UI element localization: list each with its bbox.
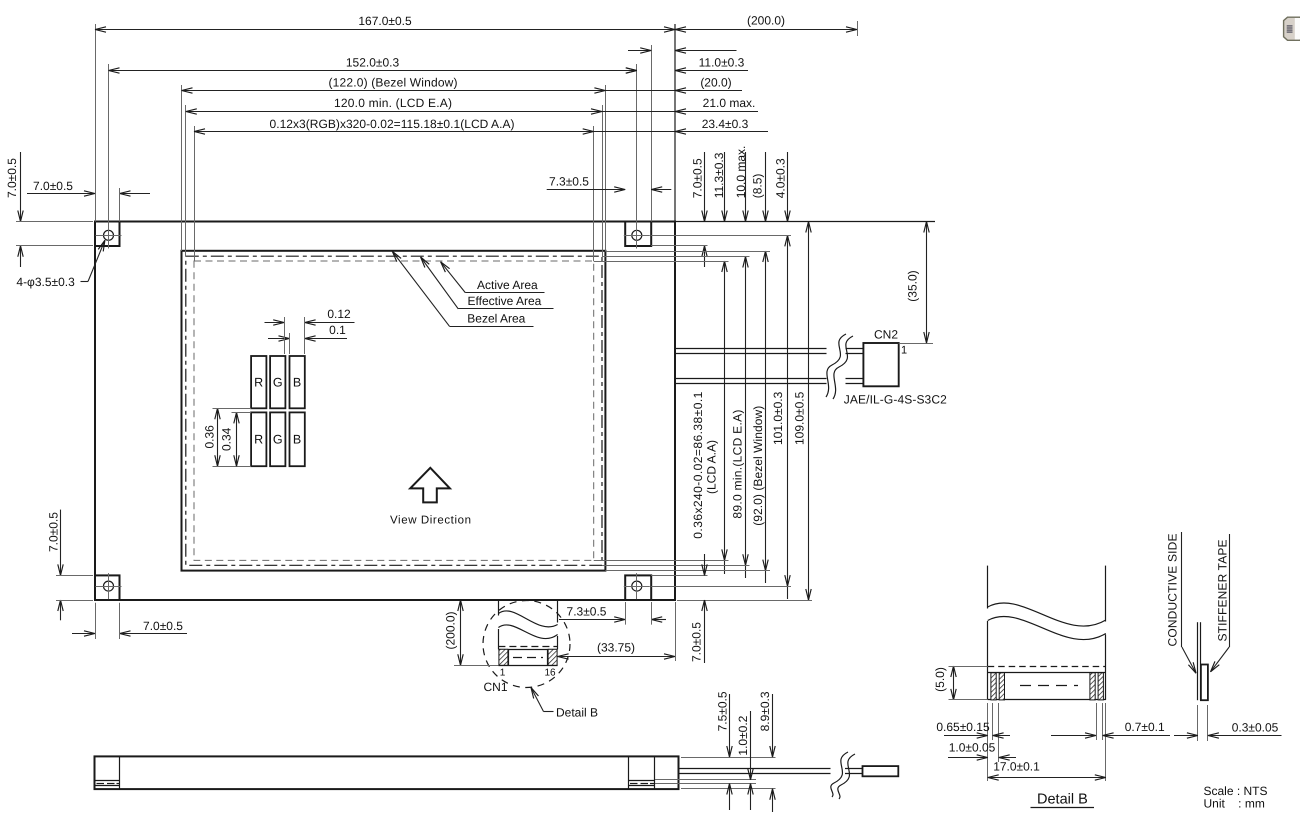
subpixel R row1	[251, 356, 266, 408]
detail B callout circle	[483, 601, 570, 688]
svg-text:(33.75): (33.75)	[597, 641, 635, 655]
connector CN2 body	[863, 343, 898, 386]
FPC CN1 right edge	[557, 600, 559, 649]
svg-text:Effective Area: Effective Area	[468, 294, 542, 308]
svg-text:STIFFENER TAPE: STIFFENER TAPE	[1216, 540, 1230, 642]
side view divider left	[119, 756, 121, 789]
FPC end side view	[1198, 622, 1201, 700]
label CN2	[874, 328, 898, 342]
ext pad TR bottom	[651, 245, 707, 247]
wire CN2 upper (two lines)	[675, 349, 863, 354]
subpixel B row1	[290, 356, 305, 408]
svg-text:1: 1	[500, 668, 506, 679]
dim 0.1 subpixel width	[268, 323, 347, 339]
svg-text:(LCD A.A): (LCD A.A)	[704, 440, 718, 494]
svg-text:(200.0): (200.0)	[444, 611, 458, 649]
ext line bezel right up	[605, 85, 607, 251]
dim 21.0 max right	[602, 96, 758, 111]
rotated label 92.0 bezel window	[751, 406, 765, 526]
dim 115.18 LCD AA width	[194, 117, 594, 132]
side view left lamp detail	[95, 781, 120, 786]
dim 120.0 LCD EA width	[186, 96, 602, 111]
dim 7.3 bottom-right pad	[559, 602, 666, 625]
svg-text:0.12x3(RGB)x320-0.02=115.18±0.: 0.12x3(RGB)x320-0.02=115.18±0.1(LCD A.A)	[270, 117, 515, 131]
ext line AA right up	[593, 126, 595, 261]
dim 7.0 vertical bottom-left (rotated label)	[47, 510, 93, 621]
ext EA top right	[602, 256, 750, 258]
label CN1	[483, 680, 507, 694]
mounting hole bottom-left	[96, 573, 122, 599]
side view divider right B	[654, 756, 656, 789]
svg-text:1: 1	[901, 345, 907, 357]
ext line hole center TL up	[108, 64, 110, 249]
mounting pad top-right	[625, 222, 651, 247]
dim 7.5 side view	[715, 691, 729, 810]
dim 7.0 vertical pad height top-left (rotated label)	[5, 152, 93, 267]
LCD module outline (main front view)	[95, 222, 675, 601]
svg-text:0.65±0.15: 0.65±0.15	[936, 720, 990, 734]
dim 7.0 horizontal pad width top-left	[27, 179, 150, 222]
ext stiffener part	[1198, 705, 1208, 741]
FPC CN1 wave break	[498, 611, 557, 639]
dim 23.4 right	[594, 117, 768, 132]
svg-text:JAE/IL-G-4S-S3C2: JAE/IL-G-4S-S3C2	[844, 392, 947, 406]
leader + label Detail B	[531, 688, 598, 720]
backlight wire upper line	[679, 768, 863, 770]
dim 17.0 detail B	[988, 760, 1106, 778]
svg-text:R: R	[254, 376, 263, 390]
subpixel B row2	[290, 412, 305, 466]
title Detail B	[1031, 792, 1095, 808]
dim 0.3 stiffener	[1174, 721, 1282, 736]
detail B FPC right edge	[1105, 566, 1107, 700]
dim 0.65 detail B	[936, 720, 1010, 735]
wire CN2 lower (two lines)	[675, 379, 863, 384]
svg-text:CN1: CN1	[483, 680, 507, 694]
dim 7.0 bottom-right pad (line x=704.3)	[689, 554, 704, 663]
label pin16 CN1	[544, 668, 556, 679]
ext CN2 top right	[899, 343, 933, 345]
svg-text:23.4±0.3: 23.4±0.3	[702, 117, 749, 131]
ext line hole center TR up	[636, 64, 638, 249]
wire break symbol (S-curve)	[826, 334, 853, 399]
svg-text:Detail B: Detail B	[1037, 792, 1088, 808]
dim 152.0 hole centers	[109, 56, 637, 71]
ext top edge to right	[675, 221, 935, 223]
FPC CN1 left edge	[498, 600, 500, 649]
dim 0.36 pixel pitch vertical	[203, 408, 252, 466]
svg-text:0.12: 0.12	[327, 307, 351, 321]
svg-text:0.36: 0.36	[203, 425, 217, 449]
svg-text:10.0 max.: 10.0 max.	[734, 146, 748, 199]
svg-text:101.0±0.3: 101.0±0.3	[771, 391, 785, 445]
ext outline bottom right	[677, 600, 812, 602]
mounting hole bottom-right	[624, 573, 650, 599]
svg-text:B: B	[293, 376, 301, 390]
detail B connector body	[988, 673, 1106, 700]
dim 7.3 top-right pad width	[547, 174, 672, 189]
ext AA top right	[594, 261, 729, 263]
svg-text:167.0±0.5: 167.0±0.5	[358, 14, 412, 28]
leader + label CONDUCTIVE SIDE	[1165, 532, 1196, 673]
ext EA bottom right	[602, 565, 750, 567]
label pin1 CN1	[500, 668, 506, 679]
dim 109.0 overall height (line x=808.5)	[792, 222, 808, 601]
dim 10.0 top + 89.0 EA height (line x=745)	[734, 146, 748, 578]
rotated label 86.38 LCD AA	[691, 391, 718, 538]
side view right lamp detail	[628, 781, 654, 786]
detail B FPC left edge	[987, 566, 989, 700]
dim (33.75) CN1 to edge	[558, 602, 676, 661]
backlight wire break symbol	[831, 752, 855, 799]
svg-text:4.0±0.3: 4.0±0.3	[774, 158, 788, 198]
ext bezel top right	[605, 251, 770, 253]
mounting pad bottom-right	[625, 575, 651, 600]
dim 11.0 hole to edge	[608, 55, 748, 70]
svg-text:89.0 min.(LCD E.A): 89.0 min.(LCD E.A)	[730, 410, 744, 519]
svg-text:7.5±0.5: 7.5±0.5	[715, 691, 729, 731]
dim (5.0) detail B	[933, 666, 988, 700]
svg-text:G: G	[273, 433, 283, 447]
svg-text:View Direction: View Direction	[390, 515, 471, 527]
svg-text:Unit : mm: Unit : mm	[1204, 796, 1265, 810]
svg-text:109.0±0.5: 109.0±0.5	[792, 391, 806, 445]
svg-text:0.3±0.05: 0.3±0.05	[1232, 721, 1279, 735]
svg-text:B: B	[293, 433, 301, 447]
dim 7.0 top-right (line x=704)	[691, 152, 705, 267]
connector CN1 body	[498, 649, 557, 665]
svg-text:7.0±0.5: 7.0±0.5	[689, 622, 703, 662]
svg-text:7.0±0.5: 7.0±0.5	[691, 158, 705, 198]
detail B bottom ext lines	[988, 703, 1106, 781]
label 4-dia3.5 mounting holes with leader	[16, 240, 105, 289]
mounting hole top-right	[624, 222, 650, 248]
ext line outline left edge up	[95, 24, 97, 222]
dim (200.0) vertical CN1	[444, 600, 499, 666]
svg-text:152.0±0.3: 152.0±0.3	[346, 56, 400, 70]
detail B stiffener dashed top	[988, 666, 1106, 668]
ext bezel bottom right	[605, 570, 770, 572]
ext lamp lines right	[655, 780, 756, 784]
svg-text:17.0±0.1: 17.0±0.1	[993, 760, 1040, 774]
svg-text:(122.0) (Bezel Window): (122.0) (Bezel Window)	[329, 76, 458, 90]
svg-text:(5.0): (5.0)	[933, 667, 947, 692]
ext line bezel left up	[181, 85, 183, 251]
svg-text:CN2: CN2	[874, 328, 898, 342]
svg-text:7.0±0.5: 7.0±0.5	[47, 512, 61, 552]
dim (35.0) top to CN2	[906, 222, 927, 344]
svg-text:8.9±0.3: 8.9±0.3	[758, 691, 772, 731]
svg-text:0.34: 0.34	[220, 427, 234, 451]
svg-text:21.0 max.: 21.0 max.	[703, 96, 756, 110]
svg-text:4-φ3.5±0.3: 4-φ3.5±0.3	[16, 275, 75, 289]
svg-text:0.1: 0.1	[329, 323, 346, 337]
ext lines subpixel dims	[285, 317, 305, 354]
dim 0.7 detail B	[1051, 720, 1170, 735]
dim 4.0 top + 101.0 holes height (line x=787)	[774, 152, 788, 599]
side view divider right A	[628, 756, 630, 789]
dim 0.34 subpixel height	[220, 412, 251, 466]
svg-text:Detail B: Detail B	[556, 706, 598, 720]
label pin 1 CN2	[901, 345, 907, 357]
rotated label 101.0	[771, 391, 785, 445]
CN1 stiffener dashed line	[498, 646, 557, 648]
subpixel R row2	[251, 412, 266, 466]
svg-text:0.7±0.1: 0.7±0.1	[1125, 720, 1165, 734]
svg-text:11.3±0.3: 11.3±0.3	[712, 152, 726, 198]
svg-text:R: R	[254, 433, 263, 447]
backlight wire connector	[863, 766, 899, 776]
stiffener tape side view	[1201, 665, 1208, 701]
svg-text:(92.0) (Bezel Window): (92.0) (Bezel Window)	[751, 406, 765, 526]
svg-text:G: G	[273, 376, 283, 390]
dim 1.0 side view	[736, 711, 751, 810]
dim (200.0) backlight cable	[675, 14, 857, 30]
label JAE/IL-G-4S-S3C2	[844, 392, 947, 406]
dim (20.0) right	[605, 76, 742, 91]
svg-text:(8.5): (8.5)	[751, 174, 765, 199]
dim 11.3 top + 86.38 AA height (line x=724.6)	[712, 152, 726, 574]
dim 167.0 overall width	[95, 14, 675, 29]
rotated label 89.0 LCD EA	[730, 410, 744, 519]
effective area rectangle (chain line)	[186, 256, 602, 565]
ext side view bottom right	[681, 788, 776, 790]
dim 7.0 horizontal bottom-left pad width	[72, 603, 187, 639]
ext line outline right edge up	[674, 24, 676, 222]
dim 1.0 detail B	[948, 741, 1016, 758]
svg-text:(35.0): (35.0)	[906, 270, 920, 301]
mounting hole top-left	[96, 222, 122, 248]
leader + label Effective Area	[421, 257, 554, 309]
leader + label Bezel Area	[392, 251, 533, 326]
svg-text:120.0 min. (LCD E.A): 120.0 min. (LCD E.A)	[334, 96, 452, 110]
ext line EA right up	[602, 105, 604, 257]
svg-text:1.0±0.05: 1.0±0.05	[949, 741, 996, 755]
svg-text:7.0±0.5: 7.0±0.5	[5, 158, 19, 198]
ext line EA left up	[185, 105, 187, 257]
svg-text:1.0±0.2: 1.0±0.2	[736, 715, 750, 755]
dim 8.9 side view	[758, 691, 772, 812]
detail B wave break	[988, 603, 1106, 640]
svg-text:7.0±0.5: 7.0±0.5	[33, 179, 73, 193]
svg-text:Bezel Area: Bezel Area	[467, 311, 525, 325]
svg-text:(200.0): (200.0)	[747, 14, 785, 28]
ext hole center TR	[651, 235, 791, 237]
side view body	[95, 756, 679, 789]
ext line AA left up	[194, 126, 196, 261]
subpixel G row2	[270, 412, 285, 466]
svg-text:11.0±0.3: 11.0±0.3	[699, 55, 745, 69]
leader + label STIFFENER TAPE	[1211, 534, 1230, 672]
svg-text:CONDUCTIVE SIDE: CONDUCTIVE SIDE	[1165, 534, 1179, 647]
svg-text:0.36x240-0.02=86.38±0.1: 0.36x240-0.02=86.38±0.1	[691, 391, 705, 538]
dim 0.12 subpixel pitch	[265, 307, 355, 323]
mounting pad bottom-left	[95, 575, 120, 600]
svg-text:7.0±0.5: 7.0±0.5	[143, 619, 183, 633]
svg-text:Active Area: Active Area	[477, 278, 538, 292]
subpixel G row1	[270, 356, 285, 408]
mounting pad top-left	[95, 222, 120, 247]
ext line pad TR right edge up	[651, 45, 653, 222]
dim (122.0) bezel window width	[182, 76, 606, 91]
scale and unit note	[1204, 784, 1268, 810]
leader + label Active Area	[441, 262, 545, 293]
ext pad BR top	[651, 575, 707, 577]
active area rectangle (gray dashed)	[194, 261, 594, 560]
ext hole center BR	[651, 586, 791, 588]
sidebar tab icon	[1284, 17, 1300, 40]
view direction arrow	[410, 468, 450, 503]
dim (8.5) top + (92.0) bezel height (line x=765.8)	[751, 152, 766, 583]
dim pad gap top right (7.3)	[628, 50, 737, 52]
backlight wire lower line	[679, 773, 863, 775]
bezel window rectangle	[182, 251, 606, 571]
svg-text:(20.0): (20.0)	[700, 76, 731, 90]
svg-text:7.3±0.5: 7.3±0.5	[549, 174, 589, 188]
ext AA bottom right	[594, 560, 729, 562]
ext side view top right	[681, 757, 776, 759]
ext line 200 dim right end	[857, 21, 859, 36]
svg-text:7.3±0.5: 7.3±0.5	[567, 604, 607, 618]
label View Direction	[390, 515, 471, 527]
